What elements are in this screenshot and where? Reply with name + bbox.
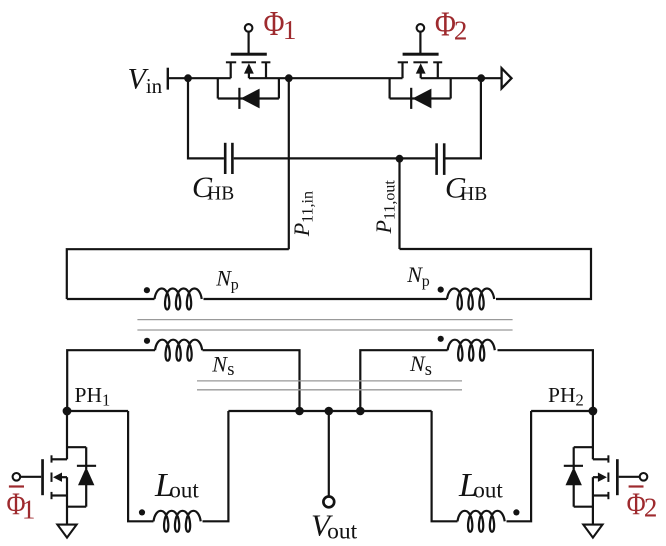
svg-text:N: N <box>211 351 228 376</box>
capacitor CHB right plates <box>435 143 445 175</box>
polarity dot Lout left <box>139 509 145 515</box>
wire M1 bulk to M2 source <box>249 77 403 79</box>
wire P11,in left drop to primary <box>67 249 289 299</box>
svg-text:1: 1 <box>283 15 297 45</box>
label Phi-bar-2 <box>627 486 658 523</box>
ground under M4 <box>583 525 602 538</box>
label Phi1 <box>264 4 297 45</box>
svg-text:2: 2 <box>454 15 468 45</box>
inductor Lout left <box>154 511 201 532</box>
label Ns right <box>409 351 432 380</box>
polarity dot Np right <box>438 287 444 293</box>
node P11,in junction <box>285 74 293 82</box>
svg-text:PH2: PH2 <box>548 383 584 410</box>
svg-text:P11,out: P11,out <box>371 180 399 235</box>
svg-text:CHB: CHB <box>192 171 234 204</box>
node Vin terminal tick <box>167 68 169 90</box>
svg-text:Lout: Lout <box>154 467 199 504</box>
wire rail PH1 to Lout1 <box>67 410 128 412</box>
svg-text:Φ: Φ <box>627 486 646 522</box>
transistor M3 <box>13 411 97 525</box>
node Vout junction <box>325 407 334 416</box>
polarity dot Np left <box>144 287 150 293</box>
svg-text:s: s <box>227 360 234 380</box>
label Phi-bar-2 overline <box>629 485 644 487</box>
transistor M1 <box>218 24 279 109</box>
label Phi-bar-1 overline <box>9 485 24 487</box>
wire secondary2 right down to PH2 <box>498 350 593 411</box>
label Phi2 <box>435 4 468 45</box>
svg-text:Vout: Vout <box>311 507 358 544</box>
svg-text:1: 1 <box>22 494 36 524</box>
label Np left <box>215 266 239 294</box>
wire Lout1 left leg <box>128 411 153 521</box>
node PH1 junction <box>63 407 72 416</box>
wire node2 down P11,in <box>288 78 290 249</box>
node P11,out junction <box>396 155 404 163</box>
wire CHB row middle <box>234 157 436 159</box>
wire primary row middle <box>204 298 448 300</box>
node secondary2 junction <box>356 407 365 416</box>
label Np right <box>406 262 430 290</box>
wire Lout1 right leg <box>203 411 229 521</box>
node secondary1 junction <box>295 407 304 416</box>
wire output node to arrow <box>481 77 501 79</box>
wire P11,out vertical <box>398 158 400 249</box>
node PH2 junction <box>589 407 598 416</box>
svg-text:N: N <box>406 262 423 287</box>
node output junction <box>477 74 485 82</box>
wire Lout2 right leg <box>507 411 532 521</box>
wire primary row right up to P11,out <box>400 249 592 299</box>
output arrow <box>502 68 512 88</box>
wire Vout tap <box>328 411 330 497</box>
wire primary row left <box>67 298 155 300</box>
terminal Vout circle <box>323 497 334 508</box>
inductor Ns right <box>448 340 495 361</box>
wire Vin rail to M1 source <box>168 77 231 79</box>
wire secondary1 right down to rail <box>203 350 300 411</box>
transistor M2 <box>390 24 451 109</box>
svg-text:2: 2 <box>644 493 658 523</box>
capacitor CHB left plates <box>224 143 234 174</box>
wire CHB row right up to node3 <box>446 78 481 158</box>
polarity dot Ns right <box>438 336 444 342</box>
svg-text:s: s <box>425 360 432 380</box>
wire center rail <box>228 410 431 412</box>
inductor Np right <box>447 289 494 310</box>
wire Lout2 left leg <box>432 411 458 521</box>
transformer core lines top pair <box>137 320 512 330</box>
svg-text:Φ: Φ <box>264 4 285 43</box>
polarity dot Lout right <box>513 509 519 515</box>
svg-text:Vin: Vin <box>128 63 163 98</box>
svg-text:PH1: PH1 <box>75 383 111 410</box>
ground under M3 <box>57 525 76 538</box>
inductor Ns left <box>155 340 202 361</box>
svg-text:p: p <box>422 273 430 290</box>
svg-text:CHB: CHB <box>445 171 487 204</box>
svg-text:N: N <box>215 266 232 291</box>
svg-text:P11,in: P11,in <box>289 191 317 237</box>
inductor Lout right <box>458 511 505 532</box>
polarity dot Ns left <box>144 338 150 344</box>
wire node1 down to CHB row <box>188 78 224 158</box>
wire rail Lout2 to PH2 <box>531 410 593 412</box>
svg-text:p: p <box>231 276 239 293</box>
svg-text:N: N <box>409 351 426 376</box>
wire secondary1 left down to PH1 <box>67 350 155 411</box>
label Phi-bar-1 <box>7 486 36 525</box>
transformer core lines bottom pair <box>197 381 462 390</box>
node Vin junction <box>184 74 192 82</box>
svg-text:Lout: Lout <box>458 467 503 504</box>
inductor Np left <box>155 289 202 310</box>
label Ns left <box>211 351 234 380</box>
svg-text:Φ: Φ <box>435 4 456 43</box>
transistor M4 <box>564 411 648 525</box>
wire M2 bulk to output node <box>421 77 482 79</box>
wire secondary2 left down to rail <box>360 350 447 411</box>
